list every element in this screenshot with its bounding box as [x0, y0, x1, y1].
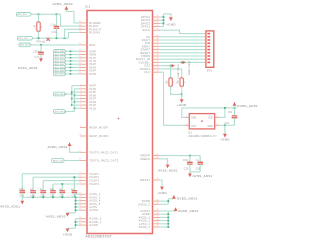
svg-text:RESP_MODP: RESP_MODP [89, 126, 108, 130]
svg-text:AVDD_ADS1: AVDD_ADS1 [178, 209, 198, 213]
oscillator pin GND [215, 124, 219, 126]
IC2 pin WCT (left, pin 25) [80, 44, 87, 46]
supply arrow AVDD_ADS1 [68, 142, 72, 146]
IC2 pin IN4P (left, pin 1) [80, 85, 87, 87]
wire net VCAP4 rail [53, 183, 80, 185]
junction [40, 44, 42, 46]
wire GND pin to rail [219, 124, 225, 126]
IC2 pin GGND_2 (left, pin 24) [80, 221, 87, 223]
svg-text:ADS_RLD: ADS_RLD [18, 13, 28, 16]
svg-text:Q1: Q1 [188, 131, 192, 134]
svg-text:4: 4 [216, 124, 217, 126]
junction [75, 197, 77, 199]
IC2 pin VCAP4 (left, pin 16) [80, 183, 87, 185]
wire net ADS_IN5P [66, 70, 80, 72]
svg-text:DVDD_ADS1: DVDD_ADS1 [187, 61, 190, 76]
wire DAISY_IN to connector [160, 58, 204, 60]
wire net ADS_IN8N [66, 54, 80, 56]
svg-text:100n: 100n [33, 50, 40, 53]
IC2 pin IN5N (left, pin 33) [80, 73, 87, 75]
capacitor C22 1u [61, 184, 63, 191]
testpoint TPGND1 cross [47, 38, 50, 41]
IC2 pin AVSS_2 (left, pin 17) [80, 193, 87, 195]
resistor R6 1M [38, 14, 40, 22]
svg-text:+GND: +GND [63, 232, 73, 236]
capacitor C25 100n [189, 156, 191, 163]
svg-text:AVSS_ADS2: AVSS_ADS2 [46, 214, 66, 218]
IC2 pin SCLK (right, pin 31) [153, 29, 160, 31]
wire net VCAP3 rail [43, 180, 80, 182]
oscillator Q1 origin dot [201, 120, 203, 122]
junction [71, 104, 73, 106]
IC2 pin VREFP (right, pin 60) [153, 155, 160, 157]
svg-text:2: 2 [186, 124, 187, 126]
wire START to connector [160, 49, 204, 51]
svg-text:ADS_WCT: ADS_WCT [20, 44, 31, 47]
IC2 origin cross [117, 117, 119, 119]
wire net RLD rail [31, 13, 60, 15]
IC2 pin RESET (right, pin 35) [153, 52, 160, 54]
IC2 pin CLK (right, pin 49) [153, 71, 160, 73]
svg-text:100n: 100n [19, 189, 25, 191]
junction [163, 16, 165, 18]
wire osc gnd drop [224, 125, 226, 134]
svg-text:10k: 10k [167, 80, 169, 85]
connector SV2 pad 10 [207, 62, 210, 64]
svg-text:IN5N: IN5N [89, 72, 96, 76]
wire RLDINV riser [69, 33, 81, 39]
wire GPIO bus to gnd [164, 14, 171, 17]
svg-text:GND: GND [207, 126, 213, 128]
wire net AVSS bus vertical [75, 194, 77, 213]
capacitor C18 100n [21, 174, 23, 191]
wire AVSS branch [76, 200, 81, 202]
junction [224, 124, 226, 126]
wire AVSS bus to arrow [68, 212, 76, 214]
IC2 pin GPIO1 (right, pin 40) [153, 26, 160, 28]
flag ADS_IN8P [53, 49, 66, 53]
svg-text:VCAP1: VCAP1 [89, 172, 99, 176]
junction [70, 51, 72, 53]
wire AVDD branch [160, 213, 169, 215]
capacitor C19 1u [32, 177, 34, 191]
junction [61, 183, 63, 185]
junction [75, 206, 77, 208]
wire AVDD branch [160, 220, 169, 222]
oscillator pin E/D [215, 116, 219, 118]
wire DVDD to arrow [168, 198, 174, 200]
wire net ADS_IN6N [66, 66, 80, 68]
junction [52, 196, 54, 198]
IC2 pin AVSS_5 (left, pin 20) [80, 203, 87, 205]
flag ADS_IN6P [53, 62, 66, 66]
IC2 pin RESV1 (right, pin 41) [153, 179, 160, 181]
flag PACE_INN [53, 110, 66, 114]
supply arrow AVSS_ADS2 [66, 213, 70, 217]
wire PACE_INP branch [72, 98, 80, 100]
svg-text:5: 5 [216, 116, 217, 118]
svg-text:RLDINV: RLDINV [89, 31, 100, 35]
wire VCAP ground bus [22, 196, 74, 198]
flag ADS_IN5N [53, 72, 66, 76]
wire vref cap gnd rail [190, 171, 200, 173]
connector SV2 pad 6 [207, 49, 210, 51]
junction [70, 60, 72, 62]
IC2 pin VCAP3 (left, pin 15) [80, 180, 87, 182]
wire AVDD branch [160, 226, 169, 228]
svg-text:AVSS_ADS1: AVSS_ADS1 [0, 205, 20, 209]
IC2 pin DRDY (right, pin 47) [153, 45, 160, 47]
junction [75, 221, 77, 223]
wire AVSS branch [76, 209, 81, 211]
wire AVDD branch [160, 210, 169, 212]
svg-text:CLK: CLK [144, 70, 150, 74]
IC2 pin AVDD_4 (right, pin 57) [153, 226, 160, 228]
junction [167, 226, 169, 228]
wire CS2 row [160, 65, 172, 67]
resistor R8 10k [180, 78, 183, 86]
junction [61, 196, 63, 198]
svg-text:RLD_OUT: RLD_OUT [19, 38, 29, 40]
IC2 pin IN1N (left, pin 8) [80, 107, 87, 109]
IC2 pin RESP_MODN (left, pin 10) [80, 135, 87, 137]
connector SV2 pad 3 [207, 39, 210, 41]
svg-text:DVDD_ADS1: DVDD_ADS1 [177, 197, 198, 201]
IC2 pin AVSS_3 (left, pin 18) [80, 196, 87, 198]
wire DRDY to connector [160, 45, 204, 47]
wire resistor bottoms to gnd [171, 86, 182, 94]
capacitor C16 1.5n [56, 14, 58, 26]
connector SV2 pad 4 [207, 42, 210, 44]
wire DVDD branch [160, 203, 169, 205]
wire net VREFP rail [160, 155, 201, 157]
IC2 pin CS2 (right, pin 51) [153, 65, 160, 67]
IC2 pin START (right, pin 36) [153, 49, 160, 51]
wire to resistor R7 [170, 66, 172, 78]
IC2 pin CLKSEL (right, pin 52) [153, 61, 160, 63]
wire PACE_INP branch [72, 104, 80, 106]
supply arrow DVDD on CLKSEL row [183, 61, 186, 64]
wire RLD rail down to RLDIN [61, 14, 81, 26]
wire SCLK jog [160, 30, 204, 33]
IC2 pin VREFN (right, pin 59) [153, 158, 160, 160]
svg-text:TPGnd1: TPGnd1 [36, 42, 46, 44]
wire flag PACE_INN to bus [66, 111, 75, 113]
wire net ADS_IN7P [66, 57, 80, 59]
wire to AVSS arrow [21, 197, 23, 200]
junction [71, 98, 73, 100]
wire AVDD_ADS2 to RLDREF [66, 10, 80, 23]
svg-text:WCT: WCT [89, 43, 96, 47]
svg-text:ADS1298IZXGT: ADS1298IZXGT [86, 234, 113, 238]
ground arrow +GND resistors [180, 99, 184, 103]
IC2 pin DIN (right, pin 44) [153, 42, 160, 44]
connector SV2 body [206, 31, 214, 67]
connector SV2 pad 8 [207, 55, 210, 57]
oscillator pin OUT [185, 124, 189, 126]
wire net VCAP1 rail [22, 173, 80, 175]
IC2 pin DGND1 (right, pin 50) [153, 68, 160, 70]
wire AVSS branch [76, 203, 81, 205]
svg-text:+GND: +GND [177, 103, 187, 107]
wire CS to connector [160, 36, 204, 38]
junction [74, 101, 76, 103]
wire net AVDD bus [167, 211, 169, 227]
wire GGND bus to arrow [68, 227, 76, 229]
wire GGND branch [76, 221, 81, 223]
svg-text:C16: C16 [52, 31, 58, 34]
wire AVSS branch [76, 196, 81, 198]
svg-text:AVDD_ADS1: AVDD_ADS1 [48, 145, 68, 149]
wire net ADS_IN6P [66, 63, 80, 65]
oscillator Q1 body [189, 114, 214, 129]
connector SV2 pad 7 [207, 52, 210, 54]
junction [70, 67, 72, 69]
junction [224, 107, 226, 109]
svg-text:+GND: +GND [166, 22, 176, 26]
svg-text:GPIO1: GPIO1 [141, 25, 151, 29]
IC2 pin PWDN (right, pin 33) [153, 55, 160, 57]
ground arrow +GND [66, 229, 70, 233]
IC2 pin DAISY_IN (right, pin 32) [153, 58, 160, 60]
junction [70, 63, 72, 65]
IC2 pin AVDD (right, pin 55) [153, 213, 160, 215]
svg-text:ADS_PACE2: ADS_PACE2 [55, 110, 67, 113]
svg-text:R8: R8 [185, 81, 187, 84]
junction [167, 223, 169, 225]
IC2 pin IN7N (left, pin 29) [80, 60, 87, 62]
wire DVDD branch [160, 200, 169, 202]
wire net ADS_IN7N [66, 60, 80, 62]
IC2 pin GGND_3 (left, pin 23) [80, 218, 87, 220]
supply arrow DVDD_ADS1 osc [233, 102, 237, 106]
oscillator pin VDD [185, 116, 189, 118]
op-amp IC2 ADS1298IZXGT body [87, 11, 153, 234]
wire PACE_INP branch IN4P [72, 85, 80, 87]
IC2 pin IN4N (left, pin 2) [80, 88, 87, 90]
flag ADS_IN5P [53, 69, 66, 73]
IC2 pin IN8P (left, pin 26) [80, 50, 87, 52]
svg-text:1: 1 [186, 116, 187, 118]
IC2 pin GPIO2 (right, pin 39) [153, 22, 160, 24]
wire net DVDD bus [167, 199, 169, 205]
wire AVDD branch [160, 223, 169, 225]
capacitor C21 10u [52, 184, 54, 191]
wire AVDD to arrow [168, 210, 175, 212]
junction [74, 94, 76, 96]
svg-text:R6: R6 [41, 25, 43, 28]
wire net GPIO gnd [160, 16, 164, 18]
wire GGND branch [76, 224, 81, 226]
wire PACE_INN branch [75, 94, 81, 96]
capacitor C20 1u [42, 181, 44, 191]
connector SV2 pad 2 [207, 36, 210, 38]
wire PACE_INN branch [75, 101, 81, 103]
supply arrow AVSS_ADS1 vrefn [166, 165, 170, 169]
svg-text:AVDD_ADS2: AVDD_ADS2 [53, 2, 73, 6]
svg-text:AVDD_4: AVDD_4 [139, 225, 151, 229]
IC2 pin RLDOUT (left, pin 21) [80, 28, 87, 30]
svg-text:VCAP3: VCAP3 [89, 179, 99, 183]
wire net ADS_IN8P [66, 50, 80, 52]
svg-text:VREFN: VREFN [140, 157, 150, 161]
wire PACE_INN branch [75, 107, 81, 109]
junction [181, 94, 183, 96]
junction [42, 196, 44, 198]
IC2 pin IN8N (left, pin 27) [80, 54, 87, 56]
junction on CLKSEL row [181, 62, 183, 64]
flag ADS_IN8N [53, 53, 66, 57]
junction [71, 93, 72, 94]
svg-text:ADS_IN5N: ADS_IN5N [55, 73, 66, 76]
IC2 pin RLDREF (left, pin 23) [80, 22, 87, 24]
IC2 pin IN2P (left, pin 5) [80, 98, 87, 100]
IC2 pin GGND (left, pin 25) [80, 224, 87, 226]
wire net RESV1 [160, 180, 163, 187]
wire PACE_INN branch IN4N [75, 88, 81, 90]
IC2 pin RESP_MODP (left, pin 9) [80, 127, 87, 129]
IC2 pin IN3N (left, pin 4) [80, 94, 87, 96]
junction [75, 200, 77, 202]
junction [38, 37, 40, 39]
IC2 pin TESTN_PACE_OUT2 (left, pin 12) [80, 160, 87, 162]
junction [170, 65, 172, 67]
supply arrow AVSS_ADS1 at C17 [39, 58, 43, 62]
IC2 pin AVSS_6 (right, pin 58) [153, 223, 160, 225]
junction [167, 220, 169, 222]
connector SV2 pad 5 [207, 46, 210, 48]
supply arrow AVDD_ADS1 pins [174, 207, 178, 211]
svg-text:PACE_OUT: PACE_OUT [53, 159, 65, 162]
wire GGND branch [76, 218, 81, 220]
svg-text:E/D: E/D [209, 117, 213, 119]
svg-text:TESTP_PACE_OUT1: TESTP_PACE_OUT1 [89, 150, 118, 154]
svg-text:VCAP2: VCAP2 [89, 175, 99, 179]
svg-text:C26: C26 [196, 169, 201, 171]
IC2 pin AVDD_2 (right, pin 53) [153, 220, 160, 222]
flag ADS_RLD [16, 12, 31, 16]
svg-text:GGND: GGND [89, 223, 98, 227]
IC2 pin RLDIN (left, pin 22) [80, 25, 87, 27]
junction [71, 91, 73, 93]
junction [75, 224, 77, 226]
svg-text:DVDD_2: DVDD_2 [138, 202, 150, 206]
capacitor C23 1u [73, 177, 75, 191]
connector SV2 pad 1 [207, 33, 210, 35]
svg-text:C25: C25 [184, 169, 189, 171]
svg-text:IC2: IC2 [85, 5, 91, 9]
IC2 pin DVDD_2 (right, pin 45) [153, 203, 160, 205]
IC2 pin DOUT (right, pin 43) [153, 39, 160, 41]
svg-text:+GND: +GND [157, 191, 167, 195]
wire net ADS_IN5N [66, 73, 80, 75]
IC2 pin AVSS1 (left, pin 22) [80, 209, 87, 211]
IC2 pin IN2N (left, pin 6) [80, 101, 87, 103]
svg-text:AVSS_ADS1: AVSS_ADS1 [193, 174, 213, 178]
IC2 pin IN6P (left, pin 30) [80, 63, 87, 65]
junction [74, 107, 76, 109]
svg-text:SV2: SV2 [207, 70, 213, 73]
svg-text:15p: 15p [228, 112, 233, 114]
IC2 pin IN7P (left, pin 28) [80, 57, 87, 59]
svg-text:RESP_MODN: RESP_MODN [89, 134, 108, 138]
wire net WCT [31, 44, 80, 46]
wire RLDOUT riser [65, 29, 81, 38]
svg-text:C17: C17 [34, 56, 40, 59]
wire net VCAP2 rail [33, 176, 80, 178]
junction [56, 13, 58, 15]
svg-text:+GND: +GND [220, 138, 230, 142]
junction [163, 23, 165, 25]
resistor R7 10k [169, 78, 172, 86]
IC2 pin VCAP2 (left, pin 14) [80, 176, 87, 178]
svg-text:SCLK: SCLK [142, 28, 150, 32]
svg-text:TESTN_PACE_OUT2: TESTN_PACE_OUT2 [89, 159, 119, 163]
wire net PACE_INN vertical bus [74, 89, 76, 112]
svg-text:10k: 10k [178, 80, 180, 85]
svg-text:10u: 10u [50, 189, 55, 191]
capacitor C26 1u [199, 156, 201, 163]
IC2 pin CS (right, pin 34) [153, 36, 160, 38]
junction [75, 209, 77, 211]
wire AVDD branch [160, 216, 169, 218]
flag ADS_IN6N [53, 66, 66, 70]
flag PACE_INP [53, 92, 66, 96]
wire E/D to VDD rail [219, 108, 225, 118]
wire PACE_INP branch [72, 91, 80, 93]
supply arrow AVDD_ADS2 [65, 6, 69, 10]
junction [70, 57, 72, 59]
wire DIN to connector [160, 42, 204, 44]
junction [70, 54, 72, 56]
IC2 pin AVDD_3 (right, pin 54) [153, 216, 160, 218]
svg-text:AVSS_ADS1: AVSS_ADS1 [18, 66, 38, 70]
junction [74, 176, 76, 178]
flag ADS_IN7P [53, 56, 66, 60]
ground arrow +GND resv [160, 187, 164, 191]
wire AVDD_ADS1 to TESTP [70, 146, 80, 152]
svg-text:AVSS1: AVSS1 [89, 208, 99, 212]
IC2 pin IN1P (left, pin 7) [80, 104, 87, 106]
wire vref gnd drop [189, 172, 191, 174]
wire net CLK [160, 72, 185, 125]
junction [56, 37, 58, 39]
junction [70, 73, 72, 75]
ground arrow +GND gpio [169, 17, 173, 21]
IC2 pin GPIO4 (right, pin 37) [153, 16, 160, 18]
junction [167, 213, 169, 215]
wire DOUT to connector [160, 39, 204, 41]
supply arrow DVDD_ADS1 pins [172, 195, 176, 199]
IC2 pin RLDINV (left, pin 20) [80, 32, 87, 34]
wire PWDN to connector [160, 55, 204, 57]
IC2 pin IN6N (left, pin 31) [80, 66, 87, 68]
supply arrow AVSS_ADS1 vref [188, 174, 192, 178]
capacitor C17 100n [40, 45, 42, 52]
svg-text:DVDD_ADS1: DVDD_ADS1 [237, 104, 258, 108]
wire net PACE_OUT [65, 160, 80, 162]
wire gnd drop [181, 94, 183, 99]
supply arrow AVSS_ADS1 at VCAP bus [20, 201, 24, 205]
svg-text:RESV1: RESV1 [140, 178, 150, 182]
svg-text:ADS_PACE1: ADS_PACE1 [55, 93, 67, 96]
wire DGND1 row to resistor R8 [160, 69, 182, 78]
svg-text:R7: R7 [173, 81, 175, 84]
IC2 pin AVSS_4 (left, pin 19) [80, 200, 87, 202]
junction [189, 155, 191, 157]
svg-text:VCAP4: VCAP4 [89, 182, 99, 186]
wire GPIO bus vertical [163, 14, 165, 27]
